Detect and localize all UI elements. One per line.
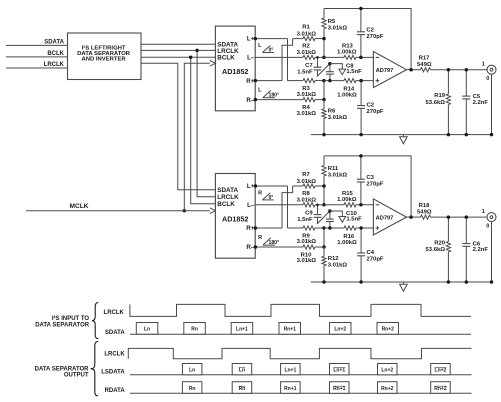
resistor R9 [288,226,325,245]
connector J1 [482,62,496,135]
pin U1 L+ label [247,36,255,43]
capacitor C3 [357,154,384,206]
wire BCLK to DAC1 [141,56,215,58]
resistor R14 [324,79,373,99]
svg-text:LSDATA: LSDATA [101,369,125,375]
pin U2 L- label [247,202,255,209]
svg-text:I²S INPUT TO: I²S INPUT TO [52,315,90,322]
resistor R2 [255,43,324,59]
svg-text:LRCLK: LRCLK [44,62,65,68]
wire ground rail [311,280,493,284]
wire LSDATA to DAC1 [141,43,215,45]
wire L+ pin [254,184,288,188]
node N2 vertical [322,226,326,249]
node timing group1 brace [92,303,98,339]
resistor R8 [255,191,324,207]
svg-text:1.00kΩ: 1.00kΩ [337,49,357,55]
svg-text:Ln: Ln [239,367,245,373]
wire C7 diagonal [317,211,330,224]
svg-text:0: 0 [486,76,489,82]
svg-text:549Ω: 549Ω [417,62,432,68]
node SDATA label [44,39,64,45]
svg-text:1.00kΩ: 1.00kΩ [337,92,357,98]
svg-text:1.5nF: 1.5nF [297,70,313,76]
svg-text:SDATA: SDATA [44,39,64,45]
resistor R18 [407,203,488,219]
capacitor C2 [357,79,384,135]
svg-text:3.01kΩ: 3.01kΩ [297,198,317,204]
wire C7 diagonal [317,64,330,77]
capacitor C6 [462,215,488,282]
node timing group2 title [35,366,90,378]
svg-text:0: 0 [486,223,489,229]
svg-text:LRCLK: LRCLK [104,310,125,316]
svg-text:Rn+1: Rn+1 [284,386,297,392]
node MCLK label [69,203,88,210]
wire LRCLK to DAC1 [141,49,215,51]
svg-text:RDATA: RDATA [105,388,126,394]
node MCLK junction [183,209,187,213]
resistor R12 [322,247,348,282]
svg-text:1.5nF: 1.5nF [346,217,362,223]
svg-text:Ln+2: Ln+2 [334,327,346,333]
svg-text:1.00kΩ: 1.00kΩ [337,197,357,203]
wire R+ jog up [282,186,293,228]
svg-text:R1: R1 [302,25,310,31]
wire ground rail [311,133,493,137]
svg-text:LRCLK: LRCLK [217,194,239,201]
capacitor C9 [297,204,321,224]
svg-text:BCLK: BCLK [47,51,64,57]
svg-text:3.01kΩ: 3.01kΩ [297,239,317,245]
svg-text:1: 1 [482,62,485,68]
svg-text:OUTPUT: OUTPUT [64,372,89,378]
svg-text:R20: R20 [434,241,446,247]
node LSDATA waveform [101,364,471,376]
svg-text:3.01kΩ: 3.01kΩ [297,31,317,37]
svg-text:Ln+1: Ln+1 [333,367,345,373]
node LRCLK junction [195,49,199,53]
node R0 phase label [258,190,274,200]
svg-text:1.5nF: 1.5nF [346,69,362,75]
svg-text:R: R [258,235,262,241]
node L0 phase label [258,43,274,53]
node RDATA waveform [105,382,472,394]
resistor R13 [324,44,373,60]
svg-text:3.01kΩ: 3.01kΩ [328,262,348,268]
svg-text:R6: R6 [328,108,336,114]
op-amp U2 [373,199,406,235]
pin U2 R- label [246,244,254,251]
svg-text:C3: C3 [366,175,374,181]
svg-text:R+: R+ [246,225,254,232]
svg-text:Ln+1: Ln+1 [284,367,296,373]
svg-text:C4: C4 [367,250,375,256]
svg-text:549Ω: 549Ω [417,209,432,215]
svg-text:53.6kΩ: 53.6kΩ [426,247,446,253]
svg-text:AD797: AD797 [376,215,394,221]
node N1 vertical [322,184,326,206]
svg-text:C2: C2 [367,102,375,108]
wire BCLK drop to DAC2 [191,57,216,204]
svg-text:DATA SEPARATOR: DATA SEPARATOR [35,322,90,328]
svg-text:3.01kΩ: 3.01kΩ [297,50,317,56]
svg-text:Ln: Ln [189,367,195,373]
wire MCLK riser to DAC1 clock [184,63,210,210]
svg-text:3.01kΩ: 3.01kΩ [297,92,317,98]
resistor R16 [324,226,373,246]
svg-text:R8: R8 [302,191,310,197]
node LRCLK waveform (output) [104,348,471,358]
svg-text:Rn+2: Rn+2 [434,386,447,392]
resistor R7 [293,172,324,188]
resistor R1 [293,25,324,41]
svg-text:Ln+1: Ln+1 [236,327,248,333]
ground symbol [400,135,408,144]
resistor R15 [324,191,373,207]
svg-text:3.01kΩ: 3.01kΩ [297,258,317,264]
svg-text:Rn+1: Rn+1 [333,386,346,392]
node N1 vertical [322,37,326,59]
svg-text:180°: 180° [269,93,280,99]
pin U2 MCLK chevron [210,208,216,214]
svg-text:L: L [258,88,262,94]
wire LRCLK input [6,67,68,69]
node R180 phase label [258,235,279,246]
svg-text:AND INVERTER: AND INVERTER [82,56,127,62]
wire feedback rail [324,9,411,70]
svg-text:R12: R12 [328,256,340,262]
node LRCLK label [44,62,65,68]
svg-text:3.01kΩ: 3.01kΩ [328,115,348,121]
svg-text:Rn+2: Rn+2 [382,327,395,333]
pin U2 L+ label [247,183,255,190]
svg-text:270pF: 270pF [366,34,383,40]
resistor R19 [426,68,451,135]
node BCLK label [47,51,64,57]
svg-text:Ln: Ln [144,327,150,333]
svg-text:C7: C7 [305,63,313,69]
wire L+ to R3 drop [287,39,289,81]
svg-text:AD1852: AD1852 [222,215,248,224]
capacitor C10 [326,209,362,230]
pin U1 R+ label [246,78,254,85]
wire BCLK input [6,56,68,58]
svg-text:L: L [258,43,262,49]
svg-text:0°: 0° [268,195,273,201]
svg-text:Rn: Rn [189,386,196,392]
ground at C8 [330,211,346,222]
pin U1 L- label [247,55,255,62]
svg-text:R7: R7 [302,172,310,178]
svg-text:Rn+1: Rn+1 [284,327,297,333]
svg-text:R–: R– [246,97,254,104]
wire R+ pin [254,226,282,230]
wire R+ jog up [282,39,293,81]
svg-text:R19: R19 [434,93,446,99]
resistor R20 [426,215,451,282]
svg-text:DATA SEPARATOR: DATA SEPARATOR [35,366,90,372]
svg-text:2.2nF: 2.2nF [473,100,489,106]
svg-text:R11: R11 [328,166,339,172]
pin U2 R+ label [246,225,254,232]
wire feedback rail [324,156,411,217]
svg-text:3.01kΩ: 3.01kΩ [328,25,348,31]
svg-text:AD1852: AD1852 [222,67,248,76]
svg-text:C2: C2 [366,27,374,33]
wire L+ pin [254,37,288,41]
svg-text:SDATA: SDATA [105,330,125,336]
resistor R6 [322,100,348,135]
svg-text:LRCLK: LRCLK [104,351,125,357]
svg-text:1.00kΩ: 1.00kΩ [337,240,357,246]
resistor R5 [322,9,348,39]
svg-text:3.01kΩ: 3.01kΩ [297,111,317,117]
svg-text:3.01kΩ: 3.01kΩ [297,179,317,185]
svg-text:AD797: AD797 [376,68,394,74]
svg-text:53.6kΩ: 53.6kΩ [426,100,446,106]
svg-text:R: R [258,190,262,196]
svg-text:Ln+2: Ln+2 [381,367,393,373]
svg-text:0°: 0° [268,47,273,53]
ground at C8 [330,64,346,75]
capacitor C8 [326,62,362,83]
ground symbol [400,282,408,291]
capacitor C7 [297,56,321,76]
node timing group1 title [35,315,90,328]
node SDATA waveform (input) [105,323,471,336]
svg-text:BCLK: BCLK [217,201,235,208]
connector J2 [482,209,496,282]
wire L+ to R3 drop [287,186,289,228]
capacitor C4 [357,226,384,282]
capacitor C5 [462,68,488,135]
svg-text:3.01kΩ: 3.01kΩ [328,173,348,179]
svg-text:L–: L– [247,202,255,209]
node L180 phase label [258,88,279,99]
svg-text:180°: 180° [269,240,280,246]
svg-text:Rn: Rn [239,386,246,392]
node LRCLK waveform (input) [104,304,471,316]
node timing group2 brace [91,342,99,396]
resistor R17 [407,55,488,71]
svg-text:C9: C9 [305,211,313,217]
svg-text:R2: R2 [302,43,310,49]
resistor R11 [322,156,348,186]
DAC U2 AD1852 [215,174,255,259]
svg-text:R–: R– [246,244,254,251]
svg-text:Ln+2: Ln+2 [435,367,447,373]
node BCLK junction [189,55,193,59]
svg-text:Rn: Rn [191,327,198,333]
wire R+ pin [254,79,282,83]
resistor R3 [288,79,325,98]
pin U1 MCLK chevron [210,60,216,66]
svg-text:R18: R18 [419,203,431,209]
svg-text:270pF: 270pF [367,256,384,262]
wire SDATA input [6,44,68,46]
wire RDATA from separator [141,63,215,190]
svg-text:BCLK: BCLK [217,54,235,61]
svg-text:R17: R17 [419,55,431,61]
svg-text:MCLK: MCLK [69,203,88,210]
wire MCLK input [26,210,210,212]
svg-text:1.5nF: 1.5nF [297,217,313,223]
svg-text:2.2nF: 2.2nF [473,247,489,253]
node N2 vertical [322,79,326,102]
capacitor C2 [357,7,384,59]
svg-text:L–: L– [247,55,255,62]
svg-text:R5: R5 [328,19,336,25]
op-amp U1 [373,52,406,88]
resistor R4 [254,98,324,117]
data separator U3 [68,33,142,80]
svg-text:L+: L+ [247,183,255,190]
svg-text:1: 1 [482,209,485,215]
svg-text:R+: R+ [246,78,254,85]
DAC U1 AD1852 [215,26,255,111]
svg-text:270pF: 270pF [367,109,384,115]
svg-text:270pF: 270pF [366,181,383,187]
pin U1 R- label [246,97,254,104]
resistor R10 [254,245,324,264]
wire LRCLK drop to DAC2 [197,50,215,196]
svg-text:Rn+2: Rn+2 [381,386,394,392]
svg-text:L+: L+ [247,36,255,43]
